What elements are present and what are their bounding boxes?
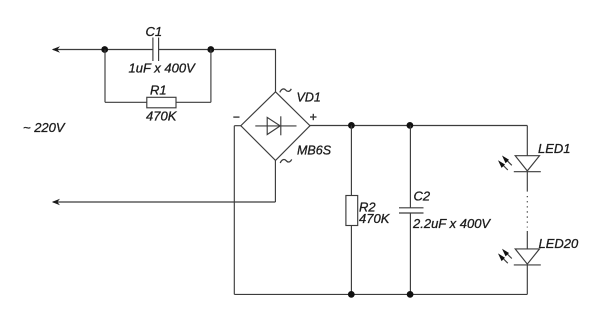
capacitor C2 (399, 208, 424, 213)
wire bottom AC line (53, 201, 275, 203)
wire LED1 to dots (526, 172, 528, 192)
wire dots to LED20 (526, 231, 528, 249)
wire C2 top lead (409, 126, 411, 208)
wire positive rail (310, 125, 527, 127)
label ~ bottom AC terminal (280, 159, 292, 163)
wire top AC line left segment (53, 49, 153, 51)
wire LED branch bottom (526, 265, 528, 295)
wire R1 branch right rise (210, 50, 212, 103)
wire bottom rail (234, 293, 527, 295)
resistor R1 (147, 97, 176, 108)
wire bridge left vertex stub (234, 125, 241, 127)
diode inside bridge (255, 116, 296, 135)
svg-text:MB6S: MB6S (297, 143, 332, 157)
node junction dot R2 bottom (348, 291, 355, 298)
wire dotted continuation (526, 196, 528, 228)
node junction dot top-left (101, 46, 108, 53)
node junction dot top-right (207, 46, 214, 53)
LED LED20 (514, 249, 541, 265)
label ~ top AC terminal (280, 89, 292, 93)
svg-text:470K: 470K (359, 211, 391, 226)
label minus terminal (233, 116, 239, 118)
svg-text:LED1: LED1 (538, 141, 571, 156)
wire C2 bottom lead (409, 213, 411, 294)
wire top AC line right segment (159, 49, 276, 51)
svg-text:470K: 470K (146, 108, 178, 123)
svg-text:C2: C2 (414, 189, 431, 204)
wire LED branch top (526, 126, 528, 156)
wire bridge bottom lead (274, 160, 276, 202)
wire bridge top lead (275, 50, 277, 92)
LED LED1 (514, 156, 541, 172)
wire R2 top lead (350, 126, 352, 196)
wire R1 branch right horizontal (176, 101, 211, 103)
svg-text:C1: C1 (146, 24, 163, 39)
node junction dot C2 top (407, 122, 414, 129)
wire R1 branch left drop (104, 50, 106, 103)
svg-text:VD1: VD1 (297, 91, 321, 105)
arrow AC input top (52, 46, 60, 53)
svg-text:R1: R1 (150, 82, 167, 97)
arrow AC input bottom (52, 199, 60, 206)
svg-text:LED20: LED20 (539, 236, 580, 251)
svg-text:1uF x 400V: 1uF x 400V (129, 61, 197, 76)
wire R1 branch left horizontal (105, 101, 147, 103)
svg-text:~ 220V: ~ 220V (23, 120, 66, 135)
label plus terminal (310, 114, 317, 120)
node junction dot R2 top (348, 122, 355, 129)
LED20 emission arrows (498, 249, 512, 264)
bridge rectifier VD1 body (241, 92, 310, 161)
wire negative drop to bottom rail (233, 126, 235, 295)
LED1 emission arrows (498, 156, 512, 171)
node junction dot C2 bottom (407, 291, 414, 298)
resistor R2 (346, 196, 358, 226)
wire R2 bottom lead (350, 226, 352, 295)
capacitor C1 (153, 38, 159, 62)
svg-text:2.2uF x 400V: 2.2uF x 400V (412, 216, 491, 231)
